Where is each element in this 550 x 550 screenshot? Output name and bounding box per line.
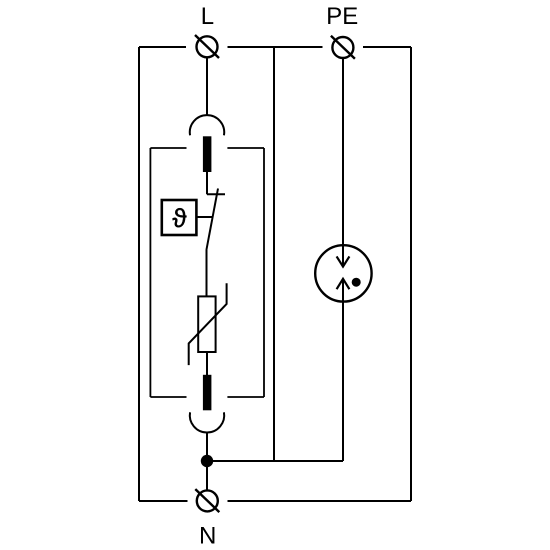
- spark gap gas-filled dot: [352, 278, 361, 287]
- wire PE to spark gap: [342, 59, 344, 266]
- spark gap up arrowhead: [337, 279, 350, 289]
- switch fixed contact tick: [207, 193, 225, 195]
- spark gap / GDT circle F1: [315, 245, 371, 301]
- thermal sensor box: [162, 200, 197, 235]
- thermal sensor symbol (theta): [173, 208, 187, 227]
- enclosure outline: [139, 47, 411, 501]
- plug-in disconnect contact top (arc): [190, 115, 224, 135]
- label N: [201, 527, 214, 544]
- wire bar to switch: [206, 172, 208, 194]
- varistor strike line: [189, 283, 227, 365]
- wire L to plug-in contact: [206, 58, 208, 115]
- label L: [203, 7, 214, 24]
- wire GDT to node line: [342, 280, 344, 462]
- terminal N: [195, 489, 219, 512]
- internal vertical wire: [273, 47, 275, 461]
- fuse/disconnector bar bottom: [203, 375, 212, 411]
- spark gap down arrowhead: [337, 256, 350, 266]
- wire contact to node: [206, 432, 208, 461]
- thermal disconnector switch blade: [206, 189, 218, 251]
- plug-in disconnect contact bottom (arc): [190, 412, 224, 432]
- protection module inner box: [150, 148, 264, 397]
- terminal L: [195, 35, 219, 58]
- label PE: [328, 7, 357, 24]
- wire node to N terminal: [206, 461, 208, 490]
- thermal link line: [196, 216, 212, 218]
- fuse/disconnector bar top: [203, 136, 212, 172]
- node junction dot: [201, 455, 213, 467]
- wire varistor to bar: [206, 352, 208, 375]
- terminal PE: [331, 36, 355, 59]
- wire node to GDT branch: [207, 460, 343, 462]
- varistor body RV1: [198, 296, 215, 352]
- wire switch to varistor: [206, 250, 208, 296]
